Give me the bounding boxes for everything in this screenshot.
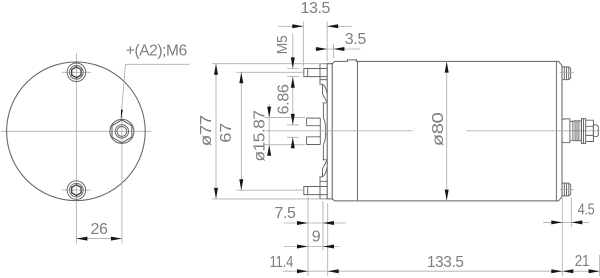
dim 6.86 upper arrows bbox=[291, 77, 295, 88]
ext ø77 top bbox=[212, 63, 327, 65]
dimension 26 line bbox=[76, 238, 122, 240]
dim 9 line bbox=[284, 246, 340, 248]
svg-text:M5: M5 bbox=[274, 36, 291, 55]
dim ø77 line bbox=[215, 64, 217, 199]
top terminal block bbox=[320, 64, 327, 80]
dim 6.86 lower arrow bbox=[291, 137, 295, 148]
svg-text:13.5: 13.5 bbox=[301, 0, 331, 17]
spigot root line bbox=[319, 118, 321, 144]
bottom terminal stud bbox=[304, 187, 320, 195]
ext shaft end bbox=[599, 255, 600, 276]
dim 3.5 arrows bbox=[316, 47, 327, 51]
shaft tip bbox=[593, 125, 598, 137]
dim 11.4 arrows bbox=[297, 269, 308, 273]
ext ø15.87 bottom bbox=[265, 144, 306, 146]
horizontal centerline bbox=[2, 130, 152, 132]
vertical centerline bbox=[75, 53, 77, 244]
svg-text:ø15.87: ø15.87 bbox=[251, 110, 268, 162]
bottom casting profile bbox=[320, 145, 327, 182]
dim 13.5 arrows bbox=[292, 24, 303, 28]
ext ø77 bottom bbox=[212, 198, 327, 200]
dim 21 line bbox=[562, 270, 599, 272]
leader line to terminal bbox=[121, 64, 190, 118]
top stud nut face bbox=[307, 69, 309, 77]
svg-text:3.5: 3.5 bbox=[345, 31, 367, 48]
ext right body end bbox=[561, 198, 563, 276]
top tie bolt centerline tick bbox=[560, 71, 574, 73]
ext bolt head end bbox=[570, 198, 572, 228]
dim 3.5 line bbox=[314, 48, 361, 50]
raised band verticals bbox=[348, 60, 357, 62]
dim 133.5 arrows bbox=[328, 269, 339, 273]
svg-text:ø80: ø80 bbox=[430, 112, 447, 146]
shaft ring bbox=[570, 121, 573, 140]
dim 6.86 line upper bbox=[292, 77, 294, 125]
bottom terminal block bbox=[320, 181, 327, 199]
dim 6.86 line lower bbox=[292, 137, 294, 147]
leader arrowhead bbox=[121, 110, 123, 120]
ext 13.5 left bbox=[302, 22, 304, 67]
ext bottom cap face bbox=[322, 201, 324, 251]
threaded section bbox=[573, 121, 582, 141]
svg-text:7.5: 7.5 bbox=[275, 205, 297, 222]
ext ticks M5 stud bbox=[287, 69, 299, 77]
dim 13.5 line bbox=[278, 25, 352, 27]
dim 67 arrows bbox=[239, 72, 243, 83]
dim 26 left arrow bbox=[76, 237, 87, 241]
top bolt hex socket bbox=[72, 67, 81, 78]
shaft hex nut bbox=[586, 120, 594, 141]
dim ø15.87 line bbox=[268, 104, 270, 153]
svg-text:26: 26 bbox=[91, 221, 108, 238]
ext ø15.87 top bbox=[265, 117, 306, 119]
terminal inner circles bbox=[115, 125, 128, 138]
shaft first cylinder bbox=[562, 119, 570, 143]
dim 4.5 line bbox=[543, 221, 589, 223]
spigot top tab bbox=[307, 118, 321, 126]
spigot boss arc bbox=[323, 118, 325, 144]
dim ø80 arrows bbox=[445, 62, 449, 73]
dim 4.5 arrows bbox=[551, 220, 562, 224]
dim 11.4 line bbox=[283, 270, 328, 272]
svg-text:6.86: 6.86 bbox=[276, 84, 293, 115]
dim 7.5 line bbox=[284, 222, 346, 224]
svg-text:ø77: ø77 bbox=[198, 115, 215, 147]
top tie bolt head bbox=[562, 67, 571, 80]
top stud lines into block bbox=[320, 69, 327, 77]
dim ø15.87 arrows bbox=[267, 107, 271, 118]
ext bottom mounting face bbox=[327, 203, 329, 276]
svg-text:133.5: 133.5 bbox=[427, 254, 464, 271]
collar discs bbox=[581, 119, 585, 144]
top bolt hole bbox=[67, 63, 86, 82]
terminal hex nut bbox=[112, 120, 132, 143]
svg-text:67: 67 bbox=[218, 123, 235, 143]
ext 3.5 right bbox=[332, 44, 334, 58]
bottom bolt hole bbox=[67, 181, 86, 200]
svg-text:21: 21 bbox=[575, 253, 590, 270]
ext ticks 6.86 slot bbox=[287, 125, 299, 137]
ext bottom stud face bbox=[307, 197, 309, 277]
dim 9 arrows bbox=[297, 245, 308, 249]
dim 26 right arrow bbox=[111, 237, 122, 241]
dim M5 arrow bbox=[291, 57, 295, 68]
hex terminal vertical centerline bbox=[121, 116, 123, 244]
motor frame outline bbox=[332, 60, 562, 201]
ext 67 bottom bbox=[237, 189, 303, 191]
bottom bolt hole centerline tick bbox=[62, 189, 91, 191]
end cap circle ø77 bbox=[7, 62, 146, 201]
bottom bolt hex socket bbox=[72, 185, 81, 196]
top bolt hole centerline tick bbox=[62, 71, 91, 73]
bottom tie bolt centerline tick bbox=[560, 189, 574, 191]
dim ø80 line bbox=[446, 62, 448, 201]
frame joint line right bbox=[555, 61, 557, 201]
svg-text:+(A2);M6: +(A2);M6 bbox=[126, 42, 187, 59]
ext 67 top bbox=[237, 71, 303, 73]
top casting profile bbox=[320, 80, 327, 119]
dim 7.5 arrows bbox=[297, 221, 308, 225]
bottom stud nut face bbox=[307, 187, 309, 195]
bottom stud lines into block bbox=[320, 187, 327, 195]
terminal washer circle bbox=[110, 119, 134, 143]
svg-text:4.5: 4.5 bbox=[578, 201, 595, 218]
dim 133.5 line bbox=[328, 270, 563, 272]
svg-text:11.4: 11.4 bbox=[270, 254, 294, 271]
frame joint line left bbox=[357, 61, 359, 201]
end cap plate bbox=[327, 64, 332, 199]
dim ø77 arrows bbox=[214, 64, 218, 75]
bottom tie bolt head bbox=[562, 183, 571, 196]
dim 21 arrows bbox=[562, 269, 573, 273]
top terminal stud M5 bbox=[304, 69, 320, 77]
dim M5 leader line bbox=[292, 34, 294, 69]
ext 13.5 right / mounting face bbox=[326, 22, 328, 62]
svg-text:9: 9 bbox=[312, 229, 321, 246]
shaft axis centerline bbox=[266, 130, 600, 132]
dim 67 line bbox=[240, 72, 242, 190]
spigot bottom tab bbox=[307, 137, 321, 145]
